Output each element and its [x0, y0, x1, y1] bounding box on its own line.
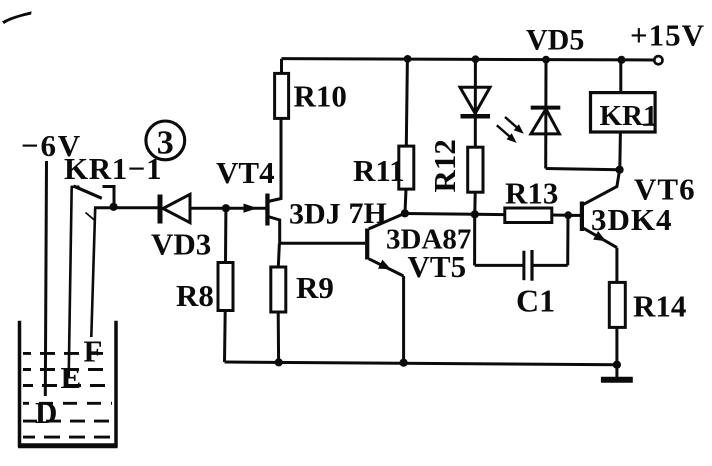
svg-text:KR1: KR1	[600, 100, 658, 132]
wire VD3 to VT4 base	[190, 207, 266, 210]
label R14	[633, 289, 686, 324]
resistor R8	[218, 208, 233, 362]
svg-text:R12: R12	[427, 139, 462, 192]
svg-text:VD3: VD3	[151, 227, 211, 262]
svg-text:VT4: VT4	[216, 155, 275, 190]
node rail/VD5	[542, 56, 550, 64]
svg-text:R8: R8	[176, 278, 214, 313]
resistor R9	[271, 243, 286, 362]
node VT5 collector/R11	[401, 209, 409, 217]
label R11	[353, 153, 405, 188]
stray pen mark top-left	[2, 11, 32, 24]
label VT4	[216, 155, 275, 190]
label +15V	[630, 18, 705, 53]
node VD3/R8/base junction	[222, 204, 230, 212]
wire F lead corner to VD3	[94, 206, 159, 209]
wire VD5 to VT6 collector node	[546, 169, 620, 170]
bottom ground rail wire	[225, 362, 618, 365]
svg-text:KR1−1: KR1−1	[64, 151, 162, 186]
label 7H	[349, 197, 387, 230]
circled 3 marker	[146, 121, 185, 162]
label C1	[516, 283, 555, 319]
wire VT5 collector to R12/R13 node	[405, 212, 475, 216]
label F	[84, 334, 103, 369]
svg-text:C1: C1	[516, 283, 555, 319]
transistor VT6	[568, 170, 619, 248]
resistor R10	[275, 59, 289, 119]
label KR1-1	[64, 151, 162, 186]
label R12 (rotated)	[427, 139, 462, 192]
light arrow 2 into VD5	[497, 125, 517, 143]
svg-text:VT5: VT5	[408, 249, 467, 284]
diode VD4 above R12	[460, 59, 490, 147]
label 3DA87	[386, 224, 471, 256]
svg-text:E: E	[61, 360, 82, 395]
label E	[61, 360, 82, 395]
label VT6	[634, 172, 696, 207]
label VD5	[526, 24, 584, 57]
label R8	[176, 278, 214, 313]
wire electrode E lead	[69, 186, 72, 377]
svg-text:R13: R13	[505, 176, 558, 211]
node R13/C1/VT6 base	[564, 211, 572, 219]
label R10	[294, 79, 347, 114]
svg-text:3: 3	[157, 125, 174, 162]
label 3DJ	[289, 198, 341, 231]
signal flow arrow on base wire	[244, 204, 258, 213]
svg-text:3DJ: 3DJ	[289, 198, 341, 231]
relay contact KR1-1 blade	[71, 186, 102, 198]
label 3DK4	[591, 202, 673, 237]
svg-text:D: D	[35, 395, 57, 430]
resistor R12	[468, 147, 483, 214]
svg-text:+15V: +15V	[630, 18, 705, 53]
diode VD3	[160, 194, 190, 223]
capacitor C1	[475, 214, 568, 280]
node rail/KR1	[617, 56, 625, 64]
node contact/VD3 junction	[110, 203, 118, 211]
label KR1	[600, 100, 658, 132]
svg-text:R11: R11	[353, 153, 405, 188]
node R12/R13/C1	[471, 210, 479, 218]
transistor VT4	[265, 118, 281, 243]
relay contact KR1-1 fixed terminal	[103, 187, 115, 207]
svg-text:R10: R10	[294, 79, 347, 114]
resistor R13	[475, 208, 568, 223]
svg-text:R9: R9	[296, 270, 334, 305]
svg-text:R14: R14	[633, 289, 686, 324]
node R14 on bottom rail	[613, 361, 621, 369]
label VD3	[151, 227, 211, 262]
node rail/R11	[404, 55, 412, 63]
resistor R14	[609, 248, 625, 365]
node VT5 emitter on bottom rail	[400, 359, 408, 367]
label -6V	[21, 128, 82, 163]
svg-text:F: F	[84, 334, 103, 369]
top supply rail wire	[282, 59, 654, 60]
svg-text:VD5: VD5	[526, 24, 584, 57]
svg-text:3DK4: 3DK4	[591, 202, 673, 237]
water level dashes	[23, 353, 112, 437]
node R8-R9 on bottom rail	[275, 358, 283, 366]
node rail/VD4	[472, 55, 480, 63]
label R13	[505, 176, 558, 211]
node KR1/VT6 collector	[616, 166, 624, 174]
svg-text:7H: 7H	[349, 197, 387, 230]
wire VT5 emitter down	[402, 276, 405, 363]
label D	[35, 395, 57, 430]
light arrow 1 into VD5	[505, 117, 524, 134]
resistor R11	[399, 59, 414, 213]
stray mark near contact	[86, 213, 96, 222]
label VT5	[408, 249, 467, 284]
label R9	[296, 270, 334, 305]
ground symbol	[601, 365, 633, 380]
transistor VT5	[280, 213, 405, 276]
+15V terminal	[654, 56, 662, 64]
electrolyte tank	[18, 321, 118, 446]
relay coil KR1	[591, 60, 656, 170]
wire electrode F lead	[91, 208, 95, 337]
photodiode VD5	[531, 60, 561, 169]
wire electrode D lead (-6V line)	[45, 161, 46, 396]
